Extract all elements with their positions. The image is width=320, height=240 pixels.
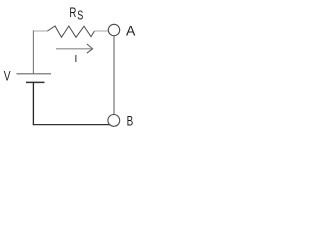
voltage source V positive plate [17, 73, 52, 75]
node B terminal [108, 115, 120, 127]
current arrow I [56, 48, 92, 50]
wire top-left segment [33, 30, 48, 32]
svg-text:I: I [75, 54, 78, 65]
svg-text:R: R [69, 4, 76, 20]
svg-text:A: A [126, 22, 136, 38]
resistor RS [48, 26, 95, 37]
svg-text:S: S [77, 9, 83, 23]
svg-text:B: B [127, 112, 134, 128]
voltage source V negative plate [26, 81, 45, 83]
node A terminal [108, 24, 119, 35]
wire left vertical upper [32, 30, 34, 73]
wire left vertical lower [32, 82, 34, 125]
svg-text:V: V [4, 68, 11, 84]
wire right vertical [113, 36, 115, 115]
wire resistor to node A [95, 30, 109, 32]
wire bottom [33, 124, 110, 126]
